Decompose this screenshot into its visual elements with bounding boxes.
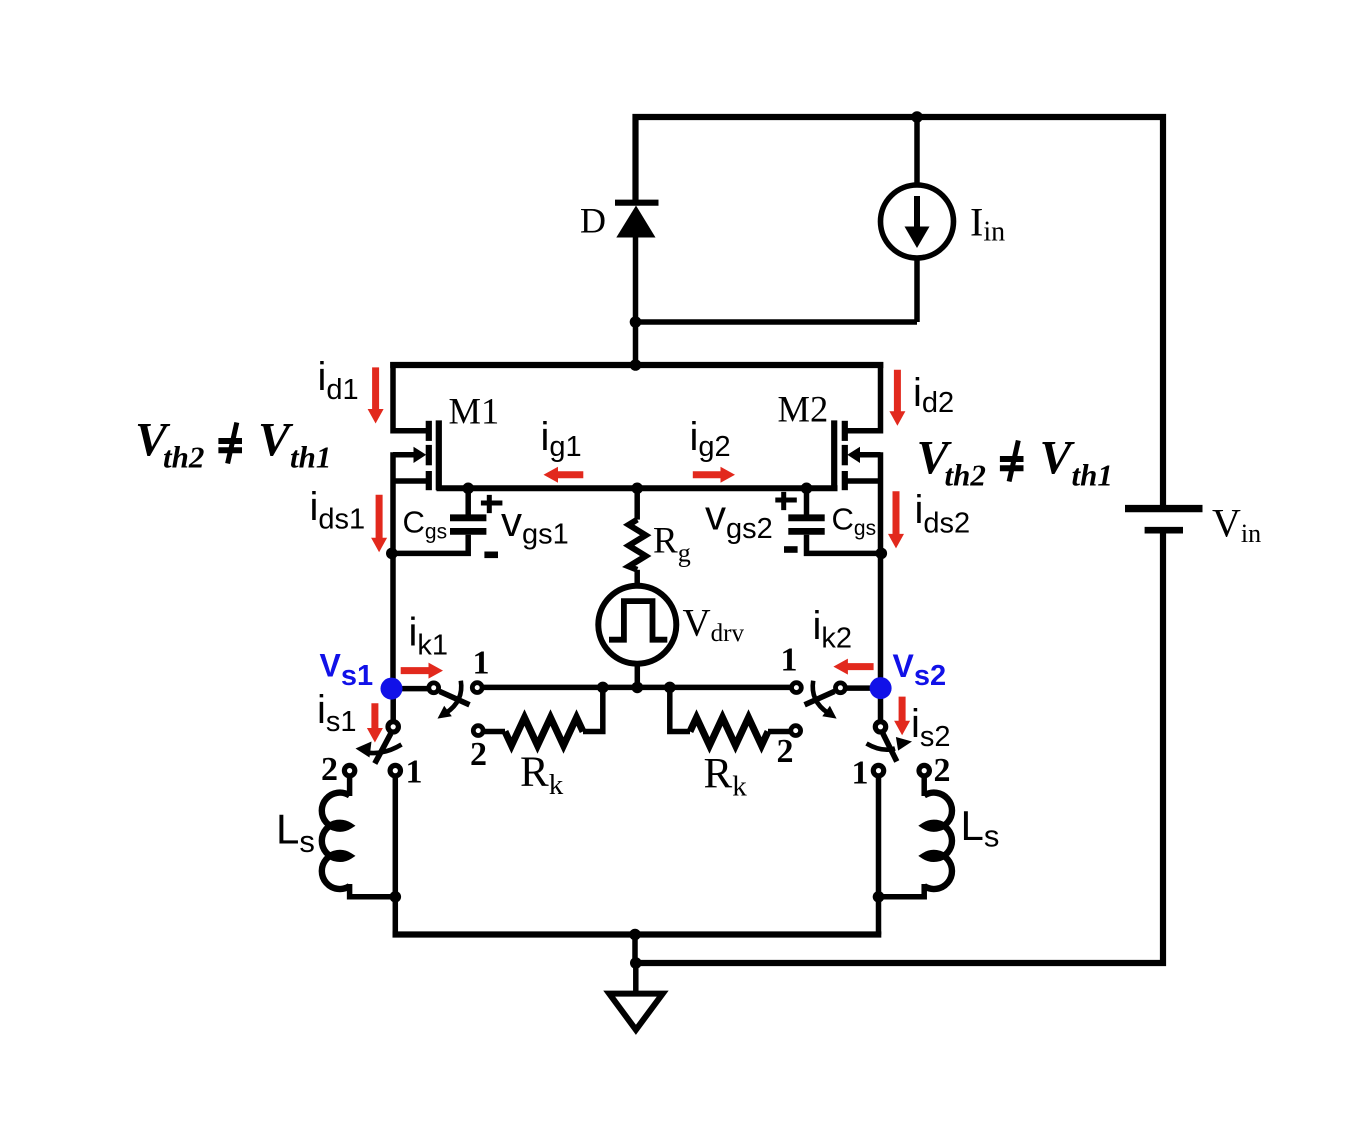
wire top bus with diode drop and right rail upper	[636, 117, 1164, 506]
wire left Ls bottom	[350, 884, 396, 897]
arrow ik2 pointing left	[833, 659, 873, 675]
arrow ig1 pointing left	[544, 467, 584, 483]
wire M1 body lead	[393, 452, 415, 458]
wire Vs2 to k-switch pole	[847, 685, 881, 691]
switch k1 contact 2 (Rk left)	[473, 726, 483, 736]
svg-text:2: 2	[934, 752, 951, 789]
wire switch bus	[484, 685, 791, 691]
node gate bus / Rg	[631, 483, 643, 495]
wire ground stem	[633, 963, 639, 991]
wire left Rk drop	[583, 687, 603, 731]
arrow ig2 pointing right	[693, 467, 735, 483]
svg-text:2: 2	[470, 736, 487, 773]
wire right Rk to contact 2	[768, 729, 790, 735]
svg-text:Iin: Iin	[970, 200, 1005, 248]
switch k1 blade	[440, 691, 470, 704]
switch s2 contact 2	[919, 765, 929, 775]
battery Vin long plate	[1125, 505, 1203, 512]
switch k1 throw contact 1	[472, 683, 482, 693]
wire M1 source rail down to Vs1	[390, 452, 396, 688]
wire Iin branch bottom	[914, 257, 920, 322]
node Ls1 bottom	[390, 891, 402, 903]
switch k1 motion arc	[446, 681, 461, 713]
wire Rg bottom lead	[634, 570, 640, 586]
node ground / Vin return	[630, 957, 642, 969]
wire diode anode down to drain bus	[633, 236, 639, 365]
switch s2 motion arc	[867, 744, 896, 750]
svg-text:ids1: ids1	[310, 485, 366, 536]
wire right Rk drop	[670, 687, 690, 731]
arrow ids1	[371, 495, 387, 552]
wire Rg top lead	[634, 488, 640, 519]
arrow ik1 pointing right	[401, 663, 443, 679]
node Cgs1 / source rail	[386, 548, 398, 560]
svg-text:Ls: Ls	[276, 806, 315, 860]
resistor Rk left zigzag	[505, 718, 583, 746]
switch k2 arrowhead	[822, 706, 836, 719]
switch s2 pole contact	[875, 722, 885, 732]
switch s1 contact 1	[390, 765, 400, 775]
svg-text:M2: M2	[778, 388, 829, 429]
node gate bus / Cgs1	[462, 483, 474, 495]
label Vth2!=Vth1 left	[135, 413, 331, 474]
node Vs2 blue dot	[870, 677, 892, 699]
svg-text:Vin: Vin	[1212, 501, 1261, 548]
label plus M2	[775, 492, 797, 510]
mosfet M2 channel bar segments	[842, 421, 848, 441]
current source Iin circle	[881, 185, 954, 258]
svg-text:Vs2: Vs2	[893, 648, 947, 692]
wire gate bus	[437, 485, 838, 491]
switch s2 contact 1	[873, 765, 883, 775]
wire left bottom elbow	[393, 897, 399, 935]
svg-text:is1: is1	[317, 688, 357, 738]
svg-text:is2: is2	[911, 702, 951, 753]
wire Vs2 down to s-switch pole	[878, 688, 884, 721]
wire left s-switch contact1 down	[393, 777, 399, 900]
battery Vin short plate	[1145, 527, 1183, 534]
wire right rail lower to bottom horizontal	[634, 531, 1163, 963]
node diode anode / Iin return	[630, 316, 642, 328]
red current arrows	[367, 367, 910, 742]
svg-text:Cgs: Cgs	[403, 505, 448, 544]
switch s1 pole contact	[388, 722, 398, 732]
wire right s-switch contact2 to Ls	[921, 777, 927, 797]
node Cgs2 / source rail	[876, 548, 888, 560]
wire left Rk to contact 2	[485, 729, 506, 735]
svg-text:2: 2	[321, 751, 338, 788]
wire M2 drain	[847, 362, 881, 431]
svg-text:ig1: ig1	[541, 415, 582, 463]
wire Vs1 to k-switch pole	[392, 686, 428, 692]
label minus M2	[784, 546, 798, 553]
source Vdrv pulse glyph	[609, 601, 667, 640]
wire right Ls bottom	[879, 884, 925, 897]
wire Cgs2 top lead	[804, 488, 810, 514]
switch k2 motion arc	[813, 681, 828, 713]
wire M1 source lead	[393, 478, 427, 484]
mosfet M1 channel bar segments	[429, 420, 845, 490]
wire right bottom elbow	[876, 897, 882, 935]
diode D triangle	[616, 206, 655, 238]
switch s1 contact 2	[344, 765, 354, 775]
node drain bus center	[630, 359, 642, 371]
svg-text:V: V	[258, 413, 294, 466]
svg-text:vgs1: vgs1	[501, 498, 569, 551]
node Vs1 blue dot	[381, 678, 403, 700]
svg-text:th2: th2	[163, 440, 204, 475]
wire ground tap	[632, 935, 638, 964]
wire node between diode and Iin	[636, 319, 918, 325]
resistor Rk right zigzag	[690, 718, 768, 746]
svg-text:1: 1	[852, 755, 869, 792]
svg-text:ik2: ik2	[813, 604, 853, 654]
mosfet M2 body arrow	[847, 447, 860, 463]
wire Cgs1 top lead	[465, 488, 471, 514]
svg-text:Vdrv: Vdrv	[683, 602, 745, 647]
node switch bus / Rk right	[664, 682, 676, 694]
node Ls2 bottom	[873, 891, 885, 903]
switch k2 blade	[805, 691, 835, 704]
wire M2 body lead	[859, 452, 881, 458]
wire Iin branch top	[914, 117, 920, 186]
wire M2 source rail down to Vs2	[878, 452, 884, 688]
mosfet M1 body arrow	[414, 447, 427, 463]
arrow is2	[894, 697, 910, 736]
svg-text:ig2: ig2	[690, 415, 731, 463]
switch s1 motion arc	[369, 745, 402, 754]
svg-text:1: 1	[406, 754, 423, 791]
svg-text:M1: M1	[449, 391, 500, 432]
svg-text:th1: th1	[1072, 458, 1113, 493]
arrow id2	[889, 370, 905, 426]
switch k2 pole contact	[836, 683, 846, 693]
node top bus / Iin	[911, 111, 923, 123]
mosfet M2 gate bar	[831, 420, 837, 490]
node gate bus / Cgs2	[801, 483, 813, 495]
switch k1 pole contact	[429, 683, 439, 693]
capacitor Cgs2 plates	[788, 514, 824, 521]
wire Vdrv bottom lead	[635, 662, 641, 687]
wire M2 source lead	[847, 478, 881, 484]
label Vth2!=Vth1 right	[917, 431, 1113, 492]
wire Cgs2 bottom lead to source rail	[807, 535, 881, 554]
wire Vs1 down to s-switch pole	[390, 689, 396, 721]
svg-text:th1: th1	[290, 440, 331, 475]
wire right s-switch contact1 down	[876, 777, 882, 900]
svg-text:id2: id2	[913, 371, 954, 419]
switch k2 contact 2 (Rk right)	[791, 726, 801, 736]
current source Iin arrow	[914, 196, 920, 228]
svg-text:Rg: Rg	[653, 521, 691, 568]
label plus M1	[481, 495, 503, 513]
svg-text:Cgs: Cgs	[832, 502, 877, 541]
svg-text:Ls: Ls	[961, 802, 1000, 854]
switch s1 blade	[375, 734, 391, 764]
svg-text:Rk: Rk	[520, 749, 564, 801]
svg-text:ik1: ik1	[409, 611, 449, 662]
svg-text:id1: id1	[318, 355, 359, 406]
ground symbol	[609, 994, 663, 1030]
wire M1 drain	[393, 362, 427, 431]
svg-text:1: 1	[473, 645, 490, 682]
source Vdrv circle	[598, 586, 676, 664]
arrow is1	[367, 703, 383, 742]
diode D cathode bar	[615, 200, 659, 206]
node bottom bus / ground	[629, 929, 641, 941]
node switch bus / Vdrv	[632, 682, 644, 694]
arrow ids2	[888, 491, 904, 548]
svg-text:D: D	[580, 201, 606, 241]
switch s2 blade	[883, 734, 897, 762]
svg-text:Vs1: Vs1	[320, 648, 374, 693]
switch s2 arrowhead	[896, 737, 912, 751]
mosfet M1 gate bar	[436, 420, 442, 490]
capacitor Cgs1 plates	[450, 514, 486, 521]
node switch bus / Rk left	[597, 682, 609, 694]
switch k1 arrowhead	[438, 706, 452, 719]
wire Cgs1 bottom lead to source rail	[393, 535, 468, 554]
inductor Ls left coil	[322, 793, 350, 889]
resistor Rg zigzag	[629, 520, 646, 570]
svg-text:2: 2	[777, 733, 794, 770]
inductor Ls right coil	[924, 793, 952, 889]
switch s1 arrowhead	[356, 742, 372, 758]
arrow id1	[368, 367, 384, 423]
svg-text:th2: th2	[945, 458, 986, 493]
switch k2 throw contact 1	[792, 683, 802, 693]
wire left s-switch contact2 to Ls	[347, 777, 353, 797]
svg-text:V: V	[1040, 431, 1076, 484]
svg-text:ids2: ids2	[915, 488, 971, 539]
wire bottom bus	[393, 931, 882, 937]
label minus M1	[484, 551, 498, 558]
svg-text:1: 1	[781, 641, 798, 678]
wire drain bus	[390, 362, 883, 368]
svg-text:Rk: Rk	[704, 751, 748, 803]
svg-text:vgs2: vgs2	[705, 492, 773, 545]
